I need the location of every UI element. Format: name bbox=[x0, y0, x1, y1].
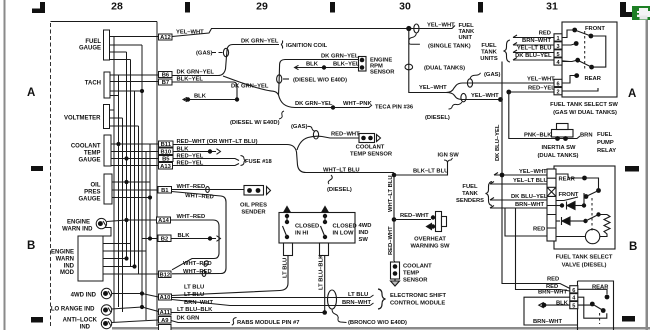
svg-text:LT BLU–BLK: LT BLU–BLK bbox=[177, 307, 213, 313]
svg-text:LT BLU: LT BLU bbox=[184, 292, 204, 298]
gas sw common link bbox=[591, 36, 606, 67]
senders wire yel-wht bbox=[494, 173, 547, 176]
engine warn ind mod box bbox=[78, 236, 103, 281]
wire A10 lt blu to escm bbox=[172, 297, 371, 299]
inertia drop vertical bbox=[509, 92, 580, 139]
wire B7 blk-yel bbox=[172, 82, 237, 100]
svg-text:FUEL: FUEL bbox=[85, 39, 101, 45]
bubble b1 upper bbox=[206, 187, 210, 193]
4wd sw pole 2 contacts bbox=[323, 214, 327, 218]
b2 stub bbox=[142, 238, 158, 240]
valve dashed link bbox=[591, 198, 593, 232]
svg-text:DK GRN–YEL: DK GRN–YEL bbox=[177, 70, 215, 76]
connector B2 bbox=[158, 235, 171, 242]
svg-text:RED: RED bbox=[547, 277, 559, 283]
svg-text:WHT–RED: WHT–RED bbox=[183, 269, 212, 275]
svg-text:(SINGLE TANK): (SINGLE TANK) bbox=[428, 44, 471, 50]
bus wire v8 bbox=[141, 45, 143, 307]
row dash left mid bbox=[31, 166, 43, 171]
coolant sensor connector top bbox=[359, 134, 375, 143]
wire B10 blk bbox=[173, 151, 216, 153]
dk blu-yel long vertical bbox=[501, 62, 571, 289]
wht-lt blu junction dot bbox=[392, 173, 397, 178]
print button bbox=[632, 6, 650, 20]
svg-text:BLK: BLK bbox=[306, 62, 319, 68]
svg-text:DK GRN–YEL: DK GRN–YEL bbox=[295, 101, 333, 107]
svg-text:SENSOR: SENSOR bbox=[403, 278, 428, 284]
svg-text:(GAS W/ DUAL TANKS): (GAS W/ DUAL TANKS) bbox=[553, 110, 617, 116]
oil stub 3 bbox=[112, 197, 150, 199]
4wd sw pole 2 arrow bbox=[322, 207, 329, 213]
svg-text:IND: IND bbox=[359, 230, 369, 236]
svg-text:VALVE (DIESEL): VALVE (DIESEL) bbox=[562, 263, 607, 269]
bronco squiggle bbox=[332, 309, 347, 323]
svg-text:YEL–WHT: YEL–WHT bbox=[427, 23, 455, 29]
bus wire v2 bbox=[118, 75, 120, 307]
svg-text:BLK: BLK bbox=[178, 233, 191, 239]
ignition coil curl bbox=[281, 41, 283, 49]
instrument cluster box bbox=[50, 22, 52, 327]
rpm sensor blk wire bbox=[298, 67, 359, 69]
oil gauge bar bbox=[104, 174, 112, 204]
svg-text:RED–WHT: RED–WHT bbox=[331, 132, 360, 138]
connector B6 bbox=[159, 72, 173, 78]
b11 branch to coolant sensor bbox=[297, 136, 359, 150]
wire B11 red-wht long bbox=[173, 145, 394, 173]
svg-text:YEL–LT BLU: YEL–LT BLU bbox=[517, 46, 552, 52]
svg-text:B: B bbox=[27, 240, 35, 252]
svg-text:BRN–WHT: BRN–WHT bbox=[184, 300, 213, 306]
column tick bbox=[478, 2, 483, 13]
blk junction dots bbox=[186, 97, 190, 101]
wire A10 brn-wht to escm bbox=[172, 300, 371, 306]
4wd sw pin 1 bbox=[284, 243, 293, 256]
corner mark top-left bbox=[32, 2, 45, 13]
valve resistor bbox=[604, 215, 610, 238]
yel-wht split down diesel bbox=[446, 93, 501, 100]
svg-text:COOLANT: COOLANT bbox=[403, 264, 432, 270]
b10 arrow bbox=[217, 149, 221, 155]
svg-text:IGN SW: IGN SW bbox=[438, 153, 460, 159]
escm brace bbox=[378, 289, 386, 309]
wire B1 lower wht-red bbox=[172, 192, 227, 274]
4wd ind sw box bbox=[279, 213, 355, 244]
coolant temp sensor bottom connector bbox=[394, 261, 396, 262]
gas squiggle right bbox=[470, 73, 481, 79]
diesel w/o e40d bubble bbox=[277, 75, 282, 83]
rear sw contacts bbox=[605, 295, 610, 300]
fuel tank senders brace bbox=[486, 182, 493, 206]
rpm blk dot bbox=[322, 65, 326, 69]
svg-text:WHT–LT BLU: WHT–LT BLU bbox=[388, 175, 394, 212]
gas sw pin 4 bbox=[554, 58, 562, 65]
row dash right bottom bbox=[622, 316, 635, 322]
wire A10 lt blu upper bbox=[172, 256, 289, 296]
gas sw dashed bbox=[584, 31, 586, 69]
bus wire v3 bbox=[122, 118, 124, 312]
fuel gauge stub 3 bbox=[110, 51, 127, 53]
yel-wht valve dot bbox=[500, 173, 505, 178]
connector A9 bbox=[159, 317, 172, 324]
red-yel wire to pin 2 bbox=[509, 91, 554, 93]
lt blu-blk vertical bbox=[324, 256, 326, 313]
wire A14 wht-red bbox=[171, 220, 220, 270]
red wire to valve bbox=[505, 208, 547, 236]
svg-text:TANK: TANK bbox=[462, 191, 478, 197]
svg-text:4WD: 4WD bbox=[359, 223, 372, 229]
svg-text:COOLANT: COOLANT bbox=[71, 144, 101, 150]
svg-text:(GAS): (GAS) bbox=[484, 72, 500, 78]
svg-text:FRONT: FRONT bbox=[559, 192, 579, 198]
valve front contacts bbox=[584, 194, 589, 199]
svg-text:31: 31 bbox=[546, 1, 558, 13]
svg-text:TEMP: TEMP bbox=[403, 271, 419, 277]
svg-text:BRN–WHT: BRN–WHT bbox=[515, 202, 544, 208]
dual tanks vertical bbox=[409, 29, 446, 93]
svg-text:TANK: TANK bbox=[481, 50, 497, 56]
diesel squiggle under wht-lt blu bbox=[328, 175, 332, 184]
svg-text:RED: RED bbox=[533, 227, 545, 233]
anti-lock ind lamp bbox=[101, 318, 111, 328]
gas sw blades bbox=[575, 30, 592, 67]
svg-text:GAUGE: GAUGE bbox=[79, 46, 101, 52]
svg-text:WHT–PNK: WHT–PNK bbox=[343, 101, 372, 107]
rear sw bottom box bbox=[578, 281, 614, 330]
connector B5 bbox=[159, 156, 174, 162]
tach stub 2 bbox=[110, 81, 159, 83]
svg-text:FUEL TANK SELECT SW: FUEL TANK SELECT SW bbox=[550, 102, 618, 108]
4wd sw pole 1 arrow bbox=[284, 207, 291, 213]
ground bbox=[391, 279, 400, 286]
svg-text:BLK–YEL: BLK–YEL bbox=[177, 77, 204, 83]
svg-text:REAR: REAR bbox=[592, 285, 609, 291]
svg-text:RELAY: RELAY bbox=[597, 148, 616, 154]
svg-text:SENDER: SENDER bbox=[241, 210, 266, 216]
wht-lt blu vertical bbox=[393, 175, 395, 220]
svg-text:PUMP: PUMP bbox=[597, 140, 614, 146]
svg-text:MOD: MOD bbox=[60, 270, 75, 276]
red-wht wire to overheat bbox=[394, 219, 431, 221]
svg-text:LT BLU–BLK: LT BLU–BLK bbox=[319, 254, 325, 290]
blk wire arrow bbox=[539, 302, 570, 308]
fuel tank units wires to pins bbox=[513, 35, 570, 62]
wire B6 dk grn-yel bbox=[172, 45, 279, 76]
right page border bbox=[646, 13, 649, 330]
svg-text:B5: B5 bbox=[162, 157, 170, 163]
svg-text:RED–WHT: RED–WHT bbox=[400, 213, 429, 219]
svg-text:BRN–WHT: BRN–WHT bbox=[342, 300, 371, 306]
senders wire dk blu-yel bbox=[490, 198, 547, 201]
fuse brace bbox=[241, 156, 247, 166]
valve diode 2 bbox=[556, 220, 560, 222]
fuel tank unit wire bbox=[409, 26, 455, 29]
connector A10 bbox=[159, 294, 172, 300]
svg-text:6: 6 bbox=[572, 288, 575, 294]
svg-text:CONTROL MODULE: CONTROL MODULE bbox=[390, 301, 445, 307]
connector B11 bbox=[159, 141, 174, 147]
svg-text:ELECTRONIC SHIFT: ELECTRONIC SHIFT bbox=[390, 293, 446, 299]
svg-text:A: A bbox=[27, 87, 35, 99]
svg-text:ENGINE: ENGINE bbox=[51, 250, 74, 256]
svg-text:REAR: REAR bbox=[559, 177, 576, 183]
svg-text:DK BLU–YEL: DK BLU–YEL bbox=[515, 53, 552, 59]
svg-text:5: 5 bbox=[572, 304, 575, 310]
wire A9 dk grn bbox=[171, 321, 230, 323]
svg-text:BLK–YEL: BLK–YEL bbox=[333, 62, 360, 68]
svg-text:FUSE #18: FUSE #18 bbox=[245, 159, 273, 165]
svg-text:A14: A14 bbox=[158, 218, 169, 224]
svg-text:DK GRN–YEL: DK GRN–YEL bbox=[321, 54, 359, 60]
svg-text:OIL PRES: OIL PRES bbox=[240, 203, 267, 209]
connector A11 bbox=[159, 309, 172, 315]
svg-text:A10: A10 bbox=[160, 295, 171, 301]
rpm sensor riser bbox=[279, 60, 360, 96]
svg-text:SENSOR: SENSOR bbox=[370, 70, 395, 76]
svg-text:2: 2 bbox=[556, 90, 559, 96]
gas sw contacts bbox=[572, 28, 577, 33]
svg-text:CLOSED: CLOSED bbox=[333, 224, 357, 230]
coolant stub 1 bbox=[111, 143, 159, 145]
svg-text:4WD IND: 4WD IND bbox=[71, 293, 97, 299]
connector A13 bbox=[159, 163, 173, 170]
engine warn lamp wire bbox=[107, 220, 157, 222]
svg-text:BLK: BLK bbox=[556, 301, 569, 307]
yel-wht dot diesel bbox=[498, 97, 503, 102]
gas sw pin 5 bbox=[554, 50, 562, 57]
bus wire v6 bbox=[134, 91, 136, 267]
fuel gauge stub 1 bbox=[110, 36, 159, 38]
svg-text:YEL–WHT: YEL–WHT bbox=[419, 85, 447, 91]
teca wire dot bbox=[331, 105, 335, 109]
connector A14 bbox=[157, 217, 171, 223]
voltmeter stub 1 bbox=[110, 109, 115, 111]
svg-text:WHT–RED: WHT–RED bbox=[177, 184, 206, 190]
wire B2 blk bbox=[171, 238, 216, 240]
tach bar bbox=[104, 72, 110, 98]
rear sw pin 6 bbox=[570, 286, 578, 293]
svg-text:YEL–LT BLU: YEL–LT BLU bbox=[513, 178, 548, 184]
tach stub 4 bbox=[110, 95, 119, 97]
fuel gauge bar bbox=[104, 30, 110, 60]
wire A13 red-yel to fuse bbox=[173, 164, 239, 166]
svg-text:B7: B7 bbox=[162, 80, 169, 86]
gas sw pin 2 bbox=[554, 88, 562, 95]
svg-text:PRES: PRES bbox=[84, 190, 100, 196]
engine warn ind lamp bbox=[96, 218, 106, 228]
diesel w/o e40d dash bbox=[283, 78, 289, 80]
valve X pin bbox=[547, 187, 556, 196]
bus wire v4 bbox=[126, 52, 128, 259]
column tick bbox=[330, 2, 335, 13]
gas sw inner wiring bbox=[562, 30, 598, 91]
svg-text:VOLTMETER: VOLTMETER bbox=[64, 116, 101, 122]
rear sw pin 5 bbox=[570, 302, 578, 309]
bottom page border bbox=[112, 327, 650, 330]
connector B7 bbox=[159, 79, 173, 85]
lo range lamp wire bbox=[112, 307, 159, 312]
oil stub 2 bbox=[112, 189, 158, 191]
rpm blk arrowhead bbox=[295, 65, 299, 69]
brn-wht bottom loop bbox=[524, 297, 578, 325]
inertia sw body bbox=[552, 130, 574, 138]
voltmeter stub 3 bbox=[110, 125, 139, 127]
svg-text:RABS MODULE PIN #7: RABS MODULE PIN #7 bbox=[237, 320, 300, 326]
rabs curly bbox=[232, 318, 237, 326]
mod stub 2 bbox=[103, 250, 146, 252]
connector A12 bbox=[159, 34, 173, 40]
svg-text:BRN: BRN bbox=[580, 133, 593, 139]
svg-text:YEL–WHT: YEL–WHT bbox=[527, 77, 555, 83]
svg-text:B10: B10 bbox=[160, 150, 171, 156]
bus wire v10 bbox=[149, 144, 151, 239]
svg-text:B11: B11 bbox=[161, 142, 172, 148]
svg-text:OIL: OIL bbox=[91, 183, 101, 189]
oil stub 1 bbox=[112, 181, 150, 183]
svg-text:BRN–WHT: BRN–WHT bbox=[538, 290, 567, 296]
valve inner front wire bbox=[556, 197, 578, 201]
blk arrowhead bbox=[183, 97, 187, 101]
coolant stub 4 bbox=[111, 165, 159, 167]
connector B12 bbox=[159, 271, 172, 278]
svg-text:(DIESEL W/ E40D): (DIESEL W/ E40D) bbox=[230, 120, 280, 126]
coolant gauge bar bbox=[104, 135, 111, 166]
gas sw pin 6 bbox=[554, 79, 562, 86]
tach stub 3 bbox=[110, 90, 142, 92]
coolant stub 2 bbox=[111, 151, 159, 153]
wire B5 red-yel to fuse bbox=[173, 159, 239, 161]
connector B1 bbox=[158, 187, 172, 194]
svg-text:GAUGE: GAUGE bbox=[78, 158, 100, 164]
svg-text:(BRONCO W/O E40D): (BRONCO W/O E40D) bbox=[348, 320, 407, 326]
b2 dot bbox=[208, 236, 212, 240]
svg-text:(DIESEL W/O E40D): (DIESEL W/O E40D) bbox=[293, 78, 347, 84]
svg-text:YEL–WHT: YEL–WHT bbox=[519, 169, 547, 175]
svg-text:RED–WHT (OR WHT–LT BLU): RED–WHT (OR WHT–LT BLU) bbox=[177, 139, 258, 145]
red-yel dot bbox=[506, 90, 511, 95]
4wd sw pole 1 contacts bbox=[285, 214, 289, 218]
svg-text:B2: B2 bbox=[161, 237, 168, 243]
valve diode 1 bbox=[556, 205, 561, 207]
svg-text:TACH: TACH bbox=[85, 81, 101, 87]
b10 dot bbox=[208, 149, 212, 153]
svg-text:RED–WHT: RED–WHT bbox=[388, 226, 394, 255]
rear sw dashed bbox=[599, 313, 601, 324]
svg-text:A11: A11 bbox=[160, 310, 171, 316]
anti-lock lamp wire bbox=[112, 320, 159, 323]
gas squiggle mid bbox=[308, 126, 315, 131]
engine rpm sensor connector bbox=[359, 57, 367, 72]
diesel squiggle right bbox=[449, 102, 463, 109]
4wd ind lamp bbox=[101, 288, 111, 298]
mod stub 4 bbox=[103, 266, 135, 268]
mod stub 5 bbox=[103, 273, 159, 275]
svg-text:ANTI–LOCK: ANTI–LOCK bbox=[63, 318, 98, 324]
svg-text:A12: A12 bbox=[160, 35, 171, 41]
svg-text:IND: IND bbox=[64, 264, 75, 270]
svg-text:SENDERS: SENDERS bbox=[456, 198, 484, 204]
gas bubble right bbox=[467, 79, 472, 87]
svg-text:(DUAL TANKS): (DUAL TANKS) bbox=[537, 153, 578, 159]
wire B1 wht-red to oil sender bbox=[172, 189, 245, 191]
valve rear contact bbox=[582, 176, 587, 181]
red-wht vertical bbox=[393, 220, 395, 262]
svg-text:29: 29 bbox=[256, 1, 268, 13]
svg-text:BLK: BLK bbox=[194, 94, 207, 100]
svg-text:FUEL: FUEL bbox=[462, 184, 478, 190]
4wd lamp wire bbox=[112, 294, 159, 298]
column tick bbox=[185, 2, 190, 13]
svg-text:(GAS): (GAS) bbox=[196, 51, 212, 57]
row dash left bottom bbox=[31, 317, 43, 323]
corner mark top-right L bbox=[620, 2, 640, 17]
svg-text:GAUGE: GAUGE bbox=[78, 197, 100, 203]
svg-text:3: 3 bbox=[556, 44, 559, 50]
connector B10 bbox=[159, 148, 174, 155]
svg-text:5: 5 bbox=[556, 52, 559, 58]
connector rail bbox=[156, 22, 158, 327]
svg-text:30: 30 bbox=[399, 1, 411, 13]
svg-text:TECA PIN #36: TECA PIN #36 bbox=[375, 105, 414, 111]
svg-text:TEMP SENSOR: TEMP SENSOR bbox=[350, 152, 393, 158]
tach stub 1 bbox=[110, 74, 159, 76]
connector A8 bbox=[159, 325, 172, 330]
svg-text:LT BLU: LT BLU bbox=[283, 258, 289, 278]
left page border bbox=[4, 0, 6, 330]
rear sw pin 4 bbox=[570, 294, 578, 301]
b2 arrow bbox=[217, 236, 221, 242]
svg-text:DK GRN–YEL: DK GRN–YEL bbox=[231, 84, 269, 90]
svg-text:UNITS: UNITS bbox=[480, 56, 498, 62]
diesel bubble right bbox=[461, 93, 466, 101]
svg-text:IN HI: IN HI bbox=[295, 231, 309, 237]
wire blk stub b7 bbox=[187, 99, 238, 101]
wire A12 yel-wht top run bbox=[172, 29, 409, 37]
svg-text:ENGINE: ENGINE bbox=[67, 220, 90, 226]
rear sw inner wires bbox=[578, 289, 607, 318]
svg-text:A9: A9 bbox=[161, 318, 169, 324]
overheat warning sw bbox=[431, 215, 435, 219]
fuel gauge stub 2 bbox=[110, 44, 143, 46]
svg-text:INERTIA SW: INERTIA SW bbox=[542, 145, 576, 151]
coolant stub 3 bbox=[111, 158, 159, 160]
svg-text:RED–YEL: RED–YEL bbox=[177, 154, 204, 160]
bubble b12 lower bbox=[202, 271, 206, 277]
svg-text:WARN IND: WARN IND bbox=[62, 227, 93, 233]
red-wht branch dot bbox=[392, 217, 397, 222]
svg-text:IND: IND bbox=[80, 325, 91, 330]
bus wire v1 bbox=[113, 37, 115, 323]
svg-text:FUEL TANK SELECT: FUEL TANK SELECT bbox=[556, 255, 613, 261]
svg-text:WHT–LT BLU: WHT–LT BLU bbox=[323, 168, 360, 174]
valve pin rail bbox=[547, 169, 556, 241]
svg-text:PNK–BLK: PNK–BLK bbox=[524, 133, 552, 139]
bus wire v5 bbox=[130, 60, 132, 267]
svg-text:RED–YEL: RED–YEL bbox=[528, 86, 555, 92]
svg-text:(DIESEL): (DIESEL) bbox=[425, 115, 450, 121]
svg-text:YEL–WHT: YEL–WHT bbox=[471, 93, 499, 99]
svg-text:B6: B6 bbox=[162, 73, 170, 79]
fuel gauge stub 4 bbox=[110, 59, 131, 61]
4wd sw pin 2 bbox=[320, 243, 329, 256]
gas bubble on ignition branch bbox=[223, 48, 228, 56]
gas dashed tap bbox=[212, 52, 223, 54]
svg-text:CLOSED: CLOSED bbox=[295, 224, 319, 230]
svg-text:COOLANT: COOLANT bbox=[356, 145, 385, 151]
gas select sw box bbox=[562, 22, 617, 97]
senders wire yel-lt blu bbox=[490, 182, 547, 185]
fuel tank units brace bbox=[504, 40, 511, 62]
single tank squiggle bbox=[409, 34, 420, 45]
